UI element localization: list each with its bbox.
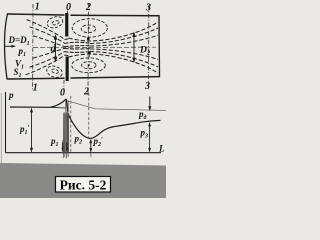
extrapolated pressure level line (68, 101, 167, 111)
dimension arrow D2 (132, 32, 135, 63)
section line 2-2 (87, 3, 90, 94)
wire (65, 38, 70, 41)
dimension arrow d (54, 34, 58, 62)
dashed section 2 line in plot (88, 93, 90, 138)
svg-text:L: L (158, 144, 165, 154)
vortex right top center (88, 27, 90, 29)
vortex right bottom center (88, 64, 90, 66)
streamline (33, 36, 65, 47)
svg-text:3: 3 (144, 81, 150, 92)
wire (65, 42, 91, 43)
caption box (56, 177, 111, 193)
wire (65, 48, 91, 50)
tap arrow p1 (62, 143, 64, 152)
node dot upper jet edge (87, 37, 90, 40)
streamline (33, 48, 65, 58)
svg-text:1: 1 (33, 83, 38, 94)
wire (65, 46, 91, 47)
svg-text:2: 2 (83, 87, 89, 98)
streamline (90, 28, 158, 44)
node dot lower jet edge (88, 51, 91, 54)
section line 0-0 (below pipe) (63, 80, 65, 95)
section line 1-1 (32, 4, 34, 90)
streamlines right diverging (69, 22, 159, 73)
paper background (0, 0, 166, 198)
orifice plate hatched band in plot (62, 100, 68, 152)
streamline (90, 35, 158, 46)
loss arrow p_d (148, 97, 151, 112)
pipe top wall (8, 14, 160, 16)
streamline (90, 49, 158, 59)
tap arrow p2 (66, 143, 68, 152)
streamline (27, 20, 65, 40)
stem below lower jet dot (88, 54, 90, 58)
streamline (30, 27, 65, 44)
svg-text:0: 0 (66, 2, 71, 13)
pressure curve (10, 99, 161, 138)
peak triangle base (50, 106, 66, 109)
arrow p1' (30, 108, 33, 153)
orifice plate lower bar (66, 57, 69, 82)
svg-text:p: p (8, 90, 14, 100)
section line 0-0 (above pipe stub) (67, 11, 69, 14)
vortex left bottom (45, 64, 63, 79)
dashed line at plate right (70, 96, 72, 152)
streamline (30, 52, 65, 67)
vortex right bottom (72, 58, 106, 73)
svg-text:d: d (51, 43, 57, 55)
pipe right wall (158, 16, 161, 77)
svg-text:1: 1 (35, 2, 40, 13)
svg-text:Рис. 5-2: Рис. 5-2 (60, 178, 107, 193)
page edge faint line (0, 93, 2, 165)
streamline (90, 52, 158, 67)
plot vertical axis (5, 92, 7, 153)
vortex left top (46, 15, 64, 30)
arrow p3 (148, 122, 151, 152)
pipe bottom wall (8, 77, 160, 79)
streamline (26, 55, 65, 75)
orifice plate upper bar (65, 13, 68, 37)
streamlines left converging (upper) (26, 20, 65, 75)
arrow p2' (89, 139, 92, 153)
wire (65, 54, 70, 57)
svg-text:3: 3 (145, 3, 151, 14)
jet boundary bottom (69, 54, 159, 73)
jet boundary top (69, 22, 159, 41)
tick below axis at p2' (90, 153, 92, 157)
jet lines through orifice gap (65, 39, 91, 56)
pipe axis center line (33, 46, 156, 48)
svg-text:2: 2 (85, 2, 91, 13)
svg-text:0: 0 (60, 88, 65, 99)
vortex right top (72, 19, 107, 37)
flow arrow (5, 45, 17, 48)
plate hatch gunk below axis (63, 153, 68, 159)
section line 3-3 (148, 5, 150, 89)
wire (65, 51, 91, 54)
plot horizontal axis (6, 152, 162, 154)
pipe left wall (4, 14, 7, 79)
